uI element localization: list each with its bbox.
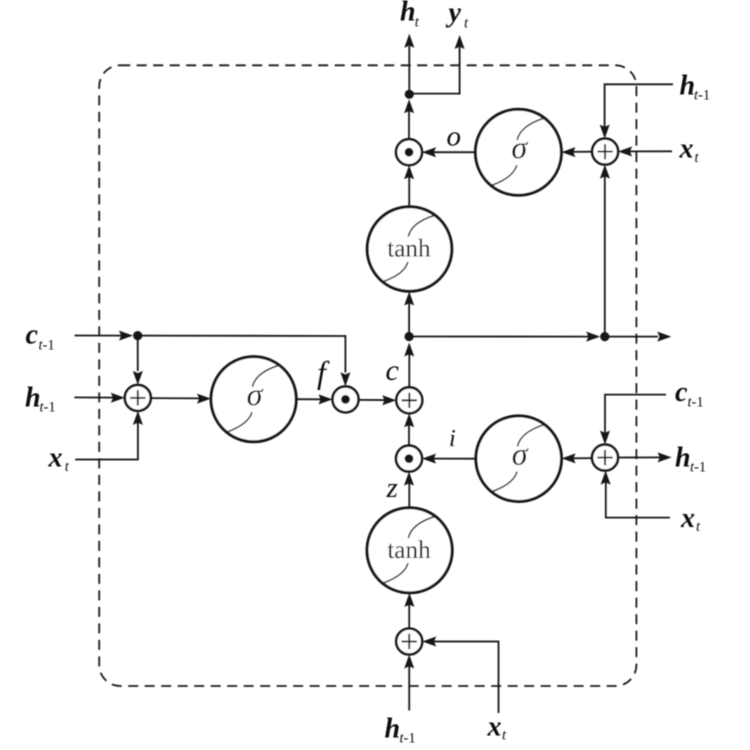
adder oplus_lr [592,445,618,471]
tanh U5 (input squash z) [367,508,452,593]
svg-text:x: x [48,442,63,473]
wire c_t output [605,332,672,342]
svg-text:y: y [446,0,462,29]
label h_t-1 bottom [385,714,416,747]
node L (c_t-1 split) [133,331,142,340]
svg-text:t: t [696,519,701,535]
svg-text:t-1: t-1 [40,400,56,416]
wire c_t-1 left input [75,331,133,341]
wire oplus_b to tanh bottom [404,593,414,629]
wire tanh top to odot_o [404,165,414,207]
svg-text:t-1: t-1 [688,395,704,411]
wire oplus_tr to sigma_o [561,147,592,157]
svg-text:t-1: t-1 [39,338,55,354]
svg-text:x: x [679,134,694,165]
svg-text:σ: σ [512,436,529,472]
wire x_t left input [75,411,143,460]
wire oplus_c to node B [404,343,414,388]
svg-text:t: t [415,15,420,31]
node B (c line center) [405,332,414,341]
svg-text:h: h [675,442,691,473]
svg-text:i: i [449,426,456,452]
wire sigma_o to odot_o [422,147,475,157]
label y_t top [446,0,470,32]
adder oplus_b [396,629,422,655]
svg-text:h: h [400,0,416,28]
svg-text:t-1: t-1 [690,460,706,476]
wire node B to node C [409,332,600,342]
wire h_t-1 top-right input [600,84,673,138]
label h_t-1 left [25,382,56,415]
wire h_t-1 bottom input [404,655,414,711]
wire node L to oplus_L [133,336,143,385]
svg-text:t-1: t-1 [694,87,710,103]
wire odot_f to oplus_c [359,395,397,405]
svg-text:t: t [464,16,469,32]
wire sigma_f to odot_f [296,394,332,404]
wire odot_o to node A [404,99,414,139]
svg-text:tanh: tanh [387,537,431,564]
svg-text:t: t [695,150,700,166]
wire oplus_lr to h_t-1 label [618,452,672,462]
svg-text:h: h [680,70,696,101]
label x_t bottom [487,712,508,744]
node C (c line right) [600,332,609,341]
label c_t-1 right [675,377,704,411]
sigma gate U4 (input gate i) [476,416,562,502]
wire tanh bottom to odot_i [404,472,414,508]
label x_t left [48,442,70,474]
wire x_t lower-right input [601,471,670,518]
wire x_t right input [618,147,672,157]
svg-text:c: c [675,377,688,408]
label x_t lower right [680,503,701,535]
adder oplus_c [396,387,422,413]
multiplier odot_i [396,446,422,472]
node A (h_t / y_t split) [405,90,414,99]
svg-text:x: x [487,712,502,743]
svg-text:z: z [386,472,398,504]
wire h_t output [404,34,414,95]
svg-text:σ: σ [511,129,528,165]
label c_t-1 left [26,320,55,354]
sigma gate U3 (forget gate f) [211,357,296,442]
svg-text:σ: σ [247,376,264,412]
label h_t-1 right [675,442,706,475]
multiplier odot_o [396,139,422,165]
svg-text:t: t [502,728,507,744]
svg-text:t-1: t-1 [400,731,416,747]
label h_t-1 top right [680,70,711,103]
svg-text:t: t [65,459,70,475]
adder oplus_tr [592,139,618,165]
wire y_t branch [409,35,464,94]
sigma gate U1 (output gate o) [475,109,561,195]
label h_t top [400,0,420,31]
wire h_t-1 left input [74,393,124,403]
wire odot_i to oplus_c [404,413,414,445]
svg-text:x: x [680,503,695,534]
wire c_t-1 right input [600,395,666,445]
adder oplus_L [125,385,151,411]
wire oplus_L to sigma_f [151,394,211,404]
svg-text:tanh: tanh [387,236,431,263]
wire node B to tanh top [404,292,414,337]
svg-text:c: c [26,320,39,351]
svg-text:h: h [25,382,41,413]
svg-text:f: f [317,354,330,390]
wire node L to odot_f [138,336,351,387]
wire sigma_i to odot_i [422,454,476,464]
label x_t right [679,134,700,166]
cell boundary dashed box [99,65,636,686]
svg-text:h: h [385,714,401,745]
svg-text:c: c [386,354,399,387]
wire x_t bottom input [422,637,498,714]
wire oplus_lr to sigma_i [562,453,592,463]
tanh U2 (cell output squash) [367,207,452,292]
svg-text:o: o [447,120,462,152]
multiplier odot_f [333,386,359,412]
wire node C to oplus_tr [600,165,610,337]
